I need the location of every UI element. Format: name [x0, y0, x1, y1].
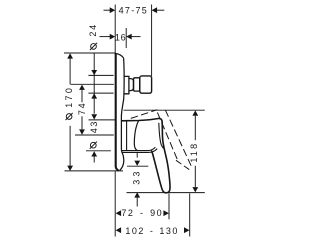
dimension 33 [127, 152, 148, 206]
dashed lever arm raised position [131, 110, 157, 119]
dashed lever grip right edge raised [165, 110, 191, 167]
svg-text:33: 33 [131, 168, 141, 184]
dimension diameter 43 [86, 114, 115, 162]
knob cap [140, 76, 152, 93]
dimension diameter 24 label [88, 23, 98, 114]
dimension diameter 170 [64, 53, 123, 171]
wire extension line x=126.2 for dim 16 [125, 28, 127, 48]
svg-text:16: 16 [115, 33, 126, 43]
dimension 118 [124, 110, 205, 192]
wire wall reference extension line x=115 bottom [114, 171, 116, 236]
plate front edge [120, 58, 124, 170]
dimension 72 - 90 [116, 208, 169, 218]
plate back face (wall side, thick) [116, 53, 119, 170]
knob stem [129, 79, 134, 91]
wire extension line x=169 lever tip [168, 193, 170, 219]
node lever tip bottom extension line [127, 192, 205, 194]
dimension diameter 74 [71, 84, 114, 135]
dashed lever grip left edge raised [157, 112, 178, 161]
svg-text:170: 170 [64, 86, 74, 108]
svg-text:74: 74 [77, 102, 87, 115]
handle grip front contour [134, 121, 138, 151]
wire wall reference extension line x=115 top [114, 5, 116, 54]
wire knob front extension line x=151.6 [151, 5, 153, 77]
node knob bottom extension line [88, 92, 113, 94]
svg-text:102 - 130: 102 - 130 [125, 226, 179, 236]
handle lever outline [122, 118, 170, 192]
svg-text:47-75: 47-75 [119, 5, 149, 15]
knob neck ring [124, 76, 129, 93]
dimension 102 - 130 [116, 226, 190, 236]
knob ring [134, 78, 140, 91]
svg-text:43: 43 [89, 120, 99, 133]
escutcheon plate side profile [115, 53, 124, 171]
handle hub sleeve line [126, 121, 128, 150]
wire extension line x=189.7 dashed lever tip [189, 193, 191, 236]
plate top edge [115, 53, 124, 58]
handle hub skirt bottom [122, 147, 156, 150]
dashed lever tip raised [176, 160, 190, 170]
handle grip crease [159, 123, 164, 149]
svg-text:24: 24 [88, 23, 98, 36]
svg-text:72 - 90: 72 - 90 [121, 208, 163, 218]
dimension 16 [100, 33, 141, 43]
svg-text:118: 118 [189, 142, 199, 163]
node knob top extension line [88, 74, 113, 76]
dimension 47-75 [104, 5, 165, 15]
handle hub skirt bottom lower [122, 149, 157, 153]
